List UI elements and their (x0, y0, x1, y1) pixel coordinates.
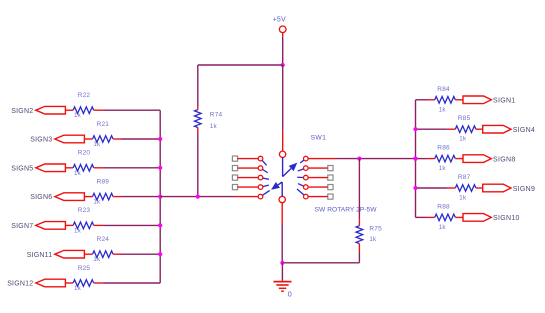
wire (416, 187, 448, 189)
connector SIGN9 (483, 184, 536, 193)
junction (413, 157, 417, 161)
wire (337, 158, 416, 160)
resistor R88 (435, 203, 456, 231)
resistor R74 (195, 106, 223, 134)
switch contact stub (297, 176, 303, 178)
switch right contact 1 (304, 156, 309, 161)
wire (282, 65, 284, 131)
svg-text:R23: R23 (78, 207, 91, 214)
connector SIGN6 (30, 193, 84, 201)
switch pin square right 2 (328, 166, 333, 171)
wire (103, 109, 161, 111)
switch pin square left 4 (232, 185, 237, 190)
switch right contact 3 (304, 175, 309, 180)
resistor R21 (93, 121, 114, 148)
switch left contact 3 (258, 175, 263, 180)
connector SIGN7 (11, 222, 65, 230)
wire (281, 224, 283, 263)
junction (413, 186, 417, 190)
svg-text:SIGN9: SIGN9 (513, 186, 536, 193)
wire (427, 99, 435, 101)
resistor R86 (435, 145, 456, 173)
wire (282, 36, 284, 65)
resistor R84 (435, 86, 456, 114)
switch contact stub (297, 189, 304, 195)
svg-text:1k: 1k (74, 227, 82, 234)
svg-text:R86: R86 (437, 145, 450, 152)
junction (158, 223, 162, 227)
wire (94, 224, 103, 226)
svg-text:SIGN10: SIGN10 (493, 215, 520, 222)
wire (238, 167, 259, 169)
wire (197, 134, 199, 197)
switch contact stub (263, 185, 269, 186)
wire (416, 99, 428, 101)
switch pin square left 1 (232, 156, 237, 161)
svg-text:R74: R74 (210, 111, 223, 118)
switch pole A terminal (279, 151, 285, 157)
wire (65, 224, 73, 226)
svg-text:1k: 1k (93, 199, 101, 206)
connector SIGN4 (483, 125, 536, 134)
switch contact stub (263, 170, 268, 173)
connector SIGN10 (463, 214, 520, 223)
wire (455, 216, 463, 218)
svg-text:1k: 1k (459, 136, 467, 143)
wire (308, 167, 328, 169)
wire (416, 128, 448, 130)
svg-text:1k: 1k (369, 236, 377, 243)
wire (448, 187, 456, 189)
connector SIGN5 (11, 164, 65, 172)
wire (94, 282, 103, 284)
resistor R89 (93, 178, 114, 205)
wire (427, 158, 435, 160)
wire (103, 282, 161, 284)
svg-text:1k: 1k (439, 224, 447, 231)
wire (476, 187, 483, 189)
svg-text:SIGN6: SIGN6 (30, 194, 52, 201)
wire (238, 158, 259, 160)
wire (84, 196, 92, 198)
svg-text:SIGN8: SIGN8 (493, 156, 516, 163)
svg-text:1k: 1k (74, 112, 82, 119)
wire (308, 177, 328, 179)
switch pin square right 3 (328, 175, 333, 180)
wire (448, 128, 456, 130)
junction (158, 166, 162, 170)
wire (281, 203, 283, 224)
svg-text:SIGN4: SIGN4 (513, 127, 536, 134)
svg-text:SIGN3: SIGN3 (30, 137, 52, 144)
wire (84, 138, 92, 140)
switch contact stub (298, 184, 303, 186)
wire (238, 177, 259, 179)
switch right contact 4 (304, 185, 309, 190)
wire (65, 109, 73, 111)
connector SIGN8 (463, 155, 516, 164)
svg-text:R88: R88 (437, 203, 450, 210)
switch right contact 2 (304, 166, 309, 171)
svg-text:R87: R87 (458, 174, 471, 181)
svg-text:R22: R22 (78, 92, 91, 99)
wire (476, 128, 483, 130)
wire (197, 65, 199, 106)
switch contact stub (263, 178, 269, 179)
switch right contact 5 (304, 194, 309, 199)
switch SW1 label (311, 135, 327, 142)
resistor R25 (73, 265, 94, 292)
wire (308, 186, 328, 188)
wire (94, 109, 103, 111)
svg-text:1k: 1k (439, 106, 447, 113)
wire (358, 159, 360, 220)
svg-text:R20: R20 (78, 150, 91, 157)
svg-text:SIGN11: SIGN11 (27, 252, 53, 259)
wire (416, 216, 428, 218)
resistor R87 (455, 174, 476, 202)
switch left contact 2 (258, 166, 263, 171)
wire (160, 196, 235, 198)
wire right bus (415, 100, 417, 218)
svg-text:1k: 1k (210, 123, 218, 130)
junction (281, 63, 285, 67)
svg-text:R75: R75 (369, 226, 382, 233)
wire (358, 252, 360, 263)
wire (113, 196, 121, 198)
wire (235, 196, 258, 198)
wire (416, 158, 428, 160)
svg-text:R84: R84 (437, 86, 450, 93)
junction (158, 195, 162, 199)
switch contact stub (262, 161, 266, 166)
wire (122, 253, 161, 255)
switch contact stub (263, 190, 270, 195)
junction (413, 157, 417, 161)
wire (455, 158, 463, 160)
switch pin square right 5 (328, 194, 333, 199)
svg-text:1k: 1k (74, 170, 82, 177)
wire (103, 167, 161, 169)
svg-text:R85: R85 (458, 115, 471, 122)
svg-text:R24: R24 (97, 236, 110, 243)
connector SIGN11 (27, 250, 85, 258)
connector SIGN2 (11, 106, 65, 114)
wire (282, 131, 284, 151)
svg-text:SIGN5: SIGN5 (11, 165, 33, 172)
connector SIGN12 (7, 279, 65, 287)
power +5V (273, 17, 286, 33)
junction (158, 252, 162, 256)
switch left contact 5 (258, 194, 263, 199)
svg-text:+5V: +5V (273, 17, 286, 24)
resistor R85 (455, 115, 476, 143)
wire (308, 196, 328, 198)
wire (282, 262, 359, 264)
switch pin square right 4 (328, 185, 333, 190)
switch pin square left 2 (232, 166, 237, 171)
svg-text:1k: 1k (93, 141, 101, 148)
wire (455, 99, 463, 101)
svg-text:1k: 1k (93, 256, 101, 263)
switch wiper A (283, 158, 298, 177)
junction (196, 195, 200, 199)
junction (413, 127, 417, 131)
resistor R75 (356, 219, 382, 251)
wire (84, 253, 92, 255)
junction (158, 137, 162, 141)
wire (113, 138, 121, 140)
svg-text:1k: 1k (74, 285, 82, 292)
wire (238, 186, 259, 188)
switch left contact 1 (258, 156, 263, 161)
junction (357, 157, 361, 161)
resistor R20 (73, 150, 94, 177)
wire (113, 253, 121, 255)
svg-text:1k: 1k (459, 195, 467, 202)
wire (103, 224, 161, 226)
svg-text:SIGN12: SIGN12 (7, 281, 33, 288)
connector SIGN1 (463, 96, 516, 105)
wire (308, 158, 337, 160)
resistor R23 (73, 207, 94, 234)
wire (122, 196, 161, 198)
svg-text:SIGN1: SIGN1 (493, 98, 516, 105)
wire (65, 167, 73, 169)
connector SIGN3 (30, 135, 84, 143)
wire (427, 216, 435, 218)
wire (65, 282, 73, 284)
switch contact stub (298, 169, 304, 171)
wire (94, 167, 103, 169)
switch wiper B (271, 182, 282, 196)
svg-text:SIGN2: SIGN2 (11, 108, 33, 115)
switch contact stub (300, 160, 304, 163)
wire (198, 64, 283, 66)
svg-text:R21: R21 (97, 121, 110, 128)
svg-text:0: 0 (288, 289, 292, 298)
switch pole B terminal (279, 196, 285, 202)
svg-text:1k: 1k (439, 165, 447, 172)
wire (122, 138, 161, 140)
wire (282, 33, 284, 37)
svg-text:SW1: SW1 (311, 135, 327, 142)
wire left bus (159, 110, 161, 283)
resistor R22 (73, 92, 94, 119)
junction (280, 261, 284, 265)
svg-text:SW ROTARY 2P-5W: SW ROTARY 2P-5W (315, 207, 378, 214)
switch pin square left 3 (232, 175, 237, 180)
resistor R24 (93, 236, 114, 263)
ground (274, 282, 292, 299)
svg-text:R25: R25 (78, 265, 91, 272)
wire (281, 263, 283, 281)
svg-text:SIGN7: SIGN7 (11, 223, 33, 230)
svg-text:R89: R89 (97, 178, 110, 185)
switch left contact 4 (258, 185, 263, 190)
